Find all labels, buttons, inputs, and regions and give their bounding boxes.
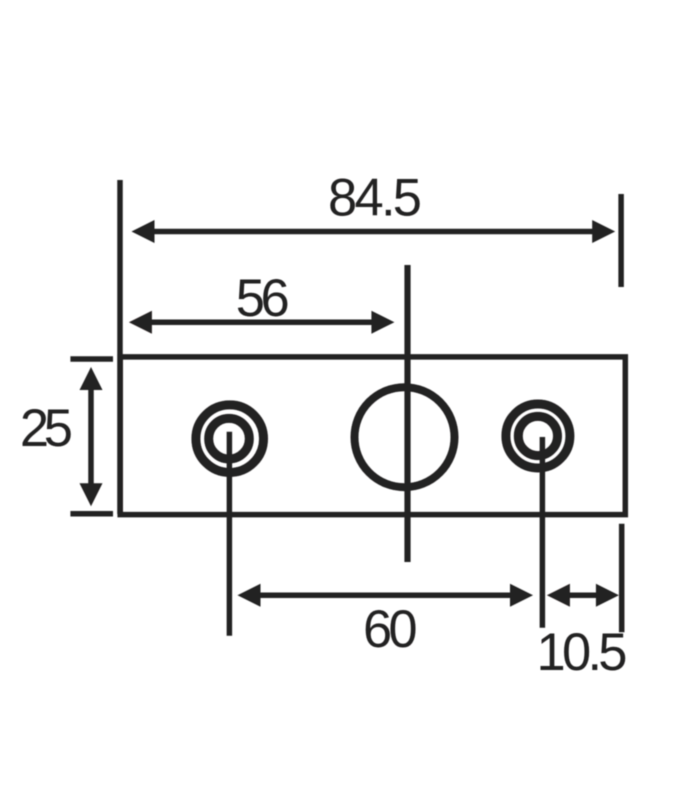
svg-text:25: 25 [20,399,73,458]
svg-text:60: 60 [363,600,418,659]
svg-text:10.5: 10.5 [537,623,628,682]
svg-text:56: 56 [236,269,290,328]
svg-text:84.5: 84.5 [328,168,422,227]
